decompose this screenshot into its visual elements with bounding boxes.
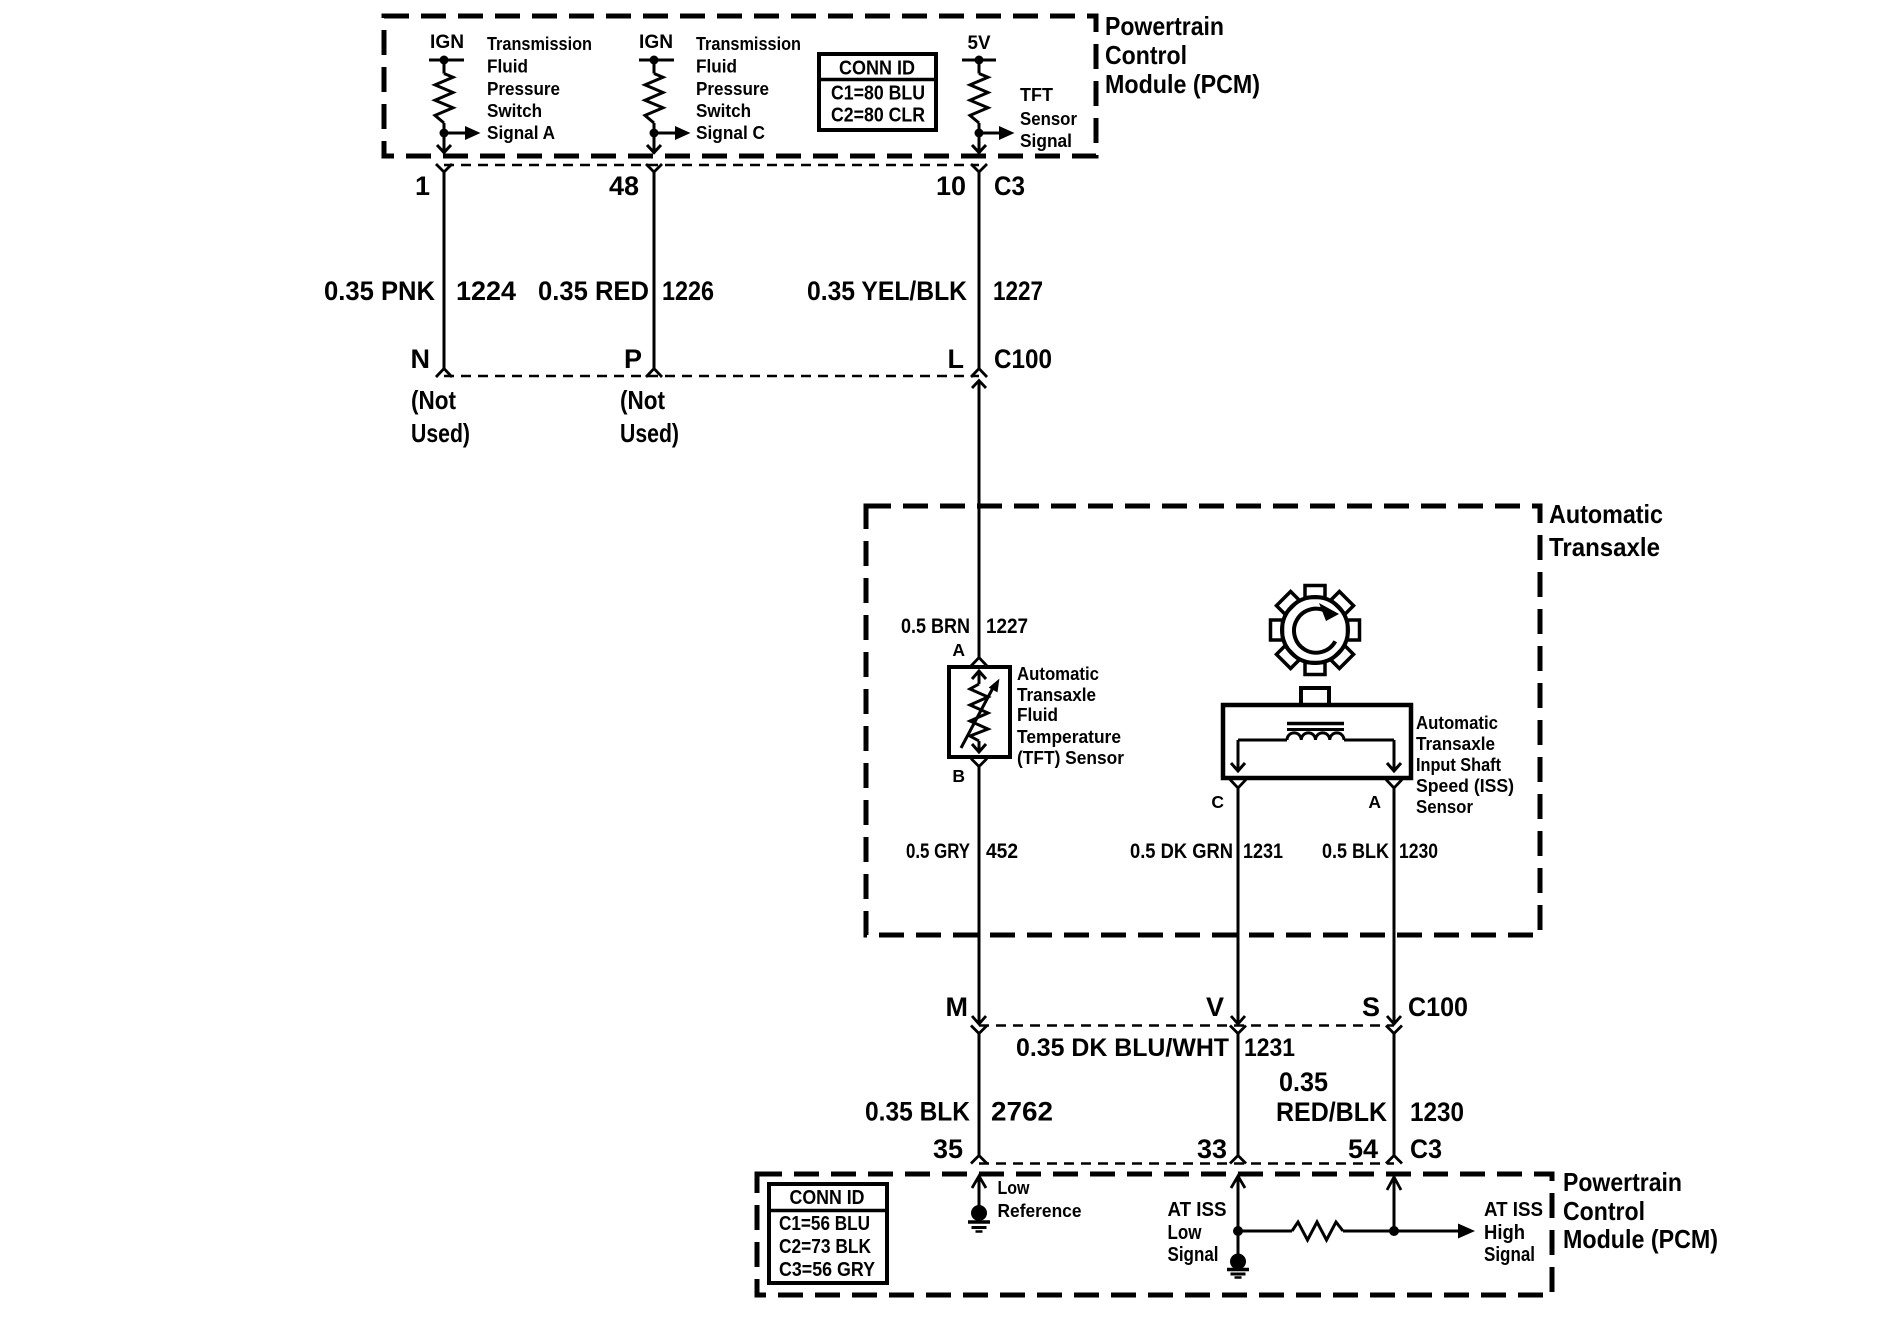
gear icon (input shaft) — [1271, 586, 1360, 675]
power feed IGN (switch C circuit) — [639, 32, 674, 74]
label C100 (bottom) — [1408, 992, 1468, 1022]
svg-text:0.5 DK GRN: 0.5 DK GRN — [1130, 840, 1233, 863]
pin 48 (C3) — [609, 164, 662, 201]
svg-text:0.35 DK BLU/WHT: 0.35 DK BLU/WHT — [1016, 1034, 1229, 1062]
label: Transmission Fluid Pressure Switch Signal A — [487, 33, 592, 143]
svg-text:M: M — [946, 992, 969, 1022]
connector C100 (bottom) dashed line — [979, 1024, 1394, 1027]
label: 0.5 BLK 1230 — [1322, 840, 1438, 863]
svg-text:C100: C100 — [1408, 992, 1468, 1022]
wire S into PCM + junction — [1343, 1177, 1459, 1236]
svg-text:P: P — [624, 344, 642, 374]
label: 0.35 RED 1226 — [538, 276, 714, 306]
svg-text:Sensor: Sensor — [1020, 108, 1077, 129]
svg-text:Fluid: Fluid — [1017, 704, 1058, 725]
svg-text:V: V — [1206, 992, 1224, 1022]
connector C100 (top) dashed line — [444, 375, 979, 378]
svg-text:C3: C3 — [994, 171, 1025, 201]
svg-text:Used): Used) — [620, 418, 679, 448]
svg-text:0.5 BRN: 0.5 BRN — [901, 615, 970, 638]
svg-text:Temperature: Temperature — [1017, 726, 1121, 747]
svg-text:Reference: Reference — [998, 1201, 1082, 1221]
svg-text:0.5 GRY: 0.5 GRY — [906, 840, 970, 863]
svg-text:Low: Low — [998, 1178, 1031, 1198]
svg-text:1227: 1227 — [993, 276, 1043, 306]
svg-text:2762: 2762 — [991, 1097, 1053, 1127]
pin A (TFT sensor) — [952, 640, 987, 666]
svg-text:Transaxle: Transaxle — [1549, 532, 1660, 562]
svg-text:High: High — [1484, 1221, 1525, 1244]
svg-text:CONN ID: CONN ID — [790, 1187, 865, 1209]
svg-text:0.35 YEL/BLK: 0.35 YEL/BLK — [807, 276, 967, 306]
svg-text:0.35: 0.35 — [1279, 1067, 1328, 1097]
svg-text:C2=73 BLK: C2=73 BLK — [779, 1236, 871, 1258]
label C3 — [994, 171, 1025, 201]
svg-text:Signal C: Signal C — [696, 122, 765, 143]
label C3 (bottom) — [1410, 1134, 1442, 1164]
wire 1230 0.5 BLK — [1393, 788, 1396, 1024]
svg-text:5V: 5V — [968, 33, 991, 54]
pin P (C100, not used) — [624, 344, 662, 377]
svg-text:S: S — [1362, 992, 1380, 1022]
svg-text:Powertrain: Powertrain — [1563, 1167, 1682, 1197]
label: 0.35 BLK 2762 — [865, 1097, 1053, 1127]
pin C (ISS sensor) — [1211, 780, 1246, 813]
pin M (C100) — [946, 992, 988, 1034]
svg-text:Pressure: Pressure — [487, 78, 560, 99]
resistor: pull-up, TFP switch signal A — [435, 74, 453, 124]
PCM module box (bottom) — [757, 1174, 1552, 1295]
svg-text:Input Shaft: Input Shaft — [1416, 754, 1501, 775]
svg-text:Signal: Signal — [1020, 130, 1072, 151]
label: Automatic Transaxle Input Shaft Speed (ISS) Sensor — [1416, 712, 1514, 817]
wire + junction + signal A arrow — [437, 123, 481, 154]
svg-text:Control: Control — [1563, 1196, 1645, 1226]
wire 1226 0.35 RED — [653, 172, 656, 369]
connector C3 (bottom) dashed line — [979, 1162, 1394, 1165]
wire + junction + signal C arrow — [647, 123, 691, 154]
ISS sensor (inductive pickup in box) — [1223, 688, 1411, 778]
label: Powertrain Control Module (PCM) bottom — [1563, 1167, 1718, 1254]
svg-text:Switch: Switch — [487, 100, 542, 121]
wire 1231 0.35 DK BLU/WHT — [1237, 1034, 1240, 1156]
pin 10 (C3) — [936, 164, 987, 201]
svg-text:C100: C100 — [994, 344, 1052, 374]
pin 1 (C3) — [415, 164, 452, 201]
note: P (Not Used) — [620, 385, 679, 448]
pin 33 (C3) — [1197, 1134, 1246, 1164]
svg-text:Transmission: Transmission — [696, 33, 801, 54]
svg-text:A: A — [1368, 792, 1381, 812]
wire 1224 0.35 PNK — [443, 172, 446, 369]
CONN ID table (top PCM) — [819, 54, 936, 130]
wire 1230 0.35 RED/BLK — [1393, 1034, 1396, 1156]
svg-text:Speed (ISS): Speed (ISS) — [1416, 775, 1514, 796]
label: Low Reference — [998, 1178, 1082, 1221]
label: 0.35 RED/BLK 1230 — [1276, 1067, 1464, 1127]
svg-text:L: L — [948, 344, 965, 374]
svg-text:AT ISS: AT ISS — [1484, 1198, 1543, 1221]
label: Automatic Transaxle Fluid Temperature (TFT) Sensor — [1017, 663, 1124, 768]
svg-text:0.5 BLK: 0.5 BLK — [1322, 840, 1389, 863]
ground: Low Reference — [968, 1176, 990, 1232]
wire 452 0.5 GRY — [978, 767, 981, 1025]
pin 35 (C3) — [933, 1134, 987, 1164]
svg-text:1224: 1224 — [456, 276, 516, 306]
svg-text:0.35 BLK: 0.35 BLK — [865, 1097, 970, 1127]
pin A (ISS sensor) — [1368, 780, 1402, 813]
wire 1227 0.5 BRN (transaxle side) — [978, 381, 981, 658]
label: 0.5 BRN 1227 — [901, 615, 1028, 638]
CONN ID table (bottom PCM) — [769, 1184, 887, 1283]
pin V (C100) — [1206, 992, 1246, 1034]
svg-text:Signal A: Signal A — [487, 122, 555, 143]
svg-text:1231: 1231 — [1244, 1034, 1295, 1062]
resistor: ISS termination (PCM internal) — [1238, 1222, 1343, 1240]
svg-text:C2=80 CLR: C2=80 CLR — [831, 105, 925, 127]
pin N (C100, not used) — [411, 344, 453, 377]
node: AT ISS Low Signal (wire V into PCM) — [1231, 1176, 1245, 1256]
wire 1227 0.35 YEL/BLK — [978, 172, 981, 369]
svg-text:AT ISS: AT ISS — [1168, 1198, 1227, 1221]
label: 0.5 DK GRN 1231 — [1130, 840, 1283, 863]
label: AT ISS High Signal — [1484, 1198, 1543, 1266]
svg-text:0.35 PNK: 0.35 PNK — [324, 276, 435, 306]
label: Transmission Fluid Pressure Switch Signal C — [696, 33, 801, 143]
svg-text:48: 48 — [609, 171, 639, 201]
label: TFT Sensor Signal — [1020, 84, 1077, 151]
svg-text:TFT: TFT — [1020, 84, 1054, 105]
svg-text:452: 452 — [986, 840, 1018, 863]
svg-text:10: 10 — [936, 171, 966, 201]
svg-text:Control: Control — [1105, 40, 1187, 70]
power feed 5V (TFT circuit) — [962, 33, 996, 74]
svg-text:(Not: (Not — [620, 385, 665, 415]
svg-text:Switch: Switch — [696, 100, 751, 121]
svg-text:Automatic: Automatic — [1549, 499, 1663, 529]
svg-text:Transaxle: Transaxle — [1017, 684, 1096, 705]
svg-text:0.35 RED: 0.35 RED — [538, 276, 649, 306]
svg-text:Low: Low — [1168, 1221, 1202, 1244]
svg-text:1230: 1230 — [1410, 1097, 1464, 1127]
svg-text:Pressure: Pressure — [696, 78, 769, 99]
wire + junction + TFT signal arrow — [972, 123, 1015, 154]
wire 1231 0.5 DK GRN — [1237, 788, 1240, 1024]
arrow up into C100 pin L — [972, 381, 986, 389]
pin L (C100) — [948, 344, 988, 377]
pin B (TFT sensor) — [952, 759, 987, 787]
svg-text:1226: 1226 — [662, 276, 714, 306]
label: Automatic Transaxle — [1549, 499, 1663, 562]
svg-text:(Not: (Not — [411, 385, 456, 415]
svg-text:Fluid: Fluid — [487, 56, 528, 77]
PCM module box (top) — [384, 16, 1096, 156]
svg-text:C: C — [1211, 792, 1224, 812]
svg-text:IGN: IGN — [430, 32, 464, 53]
TFT sensor (thermistor in box) — [949, 667, 1010, 757]
label: AT ISS Low Signal — [1168, 1198, 1227, 1266]
svg-text:Fluid: Fluid — [696, 56, 737, 77]
svg-text:C3: C3 — [1410, 1134, 1442, 1164]
svg-text:1230: 1230 — [1399, 840, 1438, 863]
svg-text:Signal: Signal — [1168, 1243, 1219, 1266]
svg-text:Transaxle: Transaxle — [1416, 733, 1495, 754]
svg-text:Module (PCM): Module (PCM) — [1563, 1224, 1718, 1254]
svg-text:Automatic: Automatic — [1017, 663, 1099, 684]
svg-text:Automatic: Automatic — [1416, 712, 1498, 733]
svg-text:N: N — [411, 344, 431, 374]
resistor: pull-up, TFT sensor signal — [970, 74, 988, 124]
svg-text:Sensor: Sensor — [1416, 796, 1473, 817]
resistor: pull-up, TFP switch signal C — [645, 74, 663, 124]
svg-text:Transmission: Transmission — [487, 33, 592, 54]
svg-text:C3=56 GRY: C3=56 GRY — [779, 1259, 876, 1281]
label: Powertrain Control Module (PCM) top — [1105, 11, 1260, 99]
svg-text:Powertrain: Powertrain — [1105, 11, 1224, 41]
svg-text:CONN ID: CONN ID — [839, 58, 915, 80]
svg-text:B: B — [952, 766, 965, 786]
svg-text:RED/BLK: RED/BLK — [1276, 1097, 1387, 1127]
svg-text:Module (PCM): Module (PCM) — [1105, 69, 1260, 99]
svg-text:C1=56 BLU: C1=56 BLU — [779, 1213, 870, 1235]
pin 54 (C3) — [1348, 1134, 1402, 1164]
label: 0.35 DK BLU/WHT 1231 — [1016, 1034, 1295, 1062]
note: N (Not Used) — [411, 385, 470, 448]
svg-text:35: 35 — [933, 1134, 963, 1164]
label: 0.35 YEL/BLK 1227 — [807, 276, 1043, 306]
svg-text:IGN: IGN — [639, 32, 673, 53]
power feed IGN (switch A circuit) — [429, 32, 464, 74]
svg-text:Signal: Signal — [1484, 1243, 1535, 1266]
svg-text:C1=80 BLU: C1=80 BLU — [831, 83, 925, 105]
svg-text:1: 1 — [415, 171, 430, 201]
svg-text:1231: 1231 — [1243, 840, 1283, 863]
label: 0.5 GRY 452 — [906, 840, 1018, 863]
svg-text:A: A — [952, 640, 965, 660]
svg-text:Used): Used) — [411, 418, 470, 448]
connector C3 (top) dashed line — [444, 164, 979, 167]
svg-text:33: 33 — [1197, 1134, 1227, 1164]
label: 0.35 PNK 1224 — [324, 276, 516, 306]
Automatic Transaxle module box — [866, 506, 1540, 935]
svg-text:54: 54 — [1348, 1134, 1378, 1164]
svg-text:(TFT) Sensor: (TFT) Sensor — [1017, 747, 1124, 768]
arrow: AT ISS High Signal — [1458, 1224, 1475, 1239]
wire 2762 0.35 BLK — [978, 1034, 981, 1156]
svg-text:1227: 1227 — [986, 615, 1028, 638]
label C100 — [994, 344, 1052, 374]
pin S (C100) — [1362, 992, 1402, 1034]
ground: AT ISS low — [1227, 1254, 1249, 1278]
